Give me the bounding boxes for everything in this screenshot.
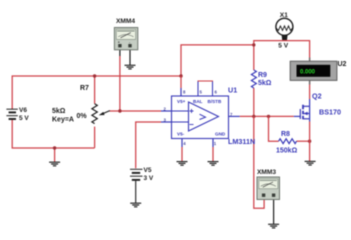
svg-text:5 V: 5 V xyxy=(278,43,288,50)
wire gate lead blue xyxy=(294,115,301,117)
ground U1 pin4 xyxy=(177,162,188,166)
ammeter U2 xyxy=(309,58,311,85)
wire V6 bottom to bottom rail xyxy=(12,120,94,149)
svg-text:R8: R8 xyxy=(281,131,290,138)
svg-text:U1: U1 xyxy=(228,86,237,95)
wire ground stub bottom-left xyxy=(54,148,56,162)
svg-text:BAL: BAL xyxy=(193,99,203,104)
node junction R8/output xyxy=(267,115,270,118)
wire XMM3 plus lead xyxy=(254,116,264,208)
node junction R7 top on rail xyxy=(93,74,96,77)
multimeter XMM3 xyxy=(257,177,280,200)
svg-text:V6: V6 xyxy=(19,107,27,114)
svg-text:Key=A: Key=A xyxy=(52,116,74,123)
svg-text:V5-: V5- xyxy=(177,132,185,137)
ground V5 xyxy=(130,203,141,207)
potentiometer R7 xyxy=(92,104,97,124)
svg-text:3 V: 3 V xyxy=(144,175,154,182)
wire V5 to U1 pin3 xyxy=(136,122,161,168)
lamp X1 xyxy=(276,18,293,35)
node junction R8/Q2 source xyxy=(308,140,311,143)
svg-text:BS170: BS170 xyxy=(319,108,341,117)
svg-text:R7: R7 xyxy=(80,85,89,92)
transistor Q2 BS170 xyxy=(300,105,309,119)
node junction pin8 / rail xyxy=(179,74,182,77)
ground Q2 source xyxy=(305,161,316,165)
svg-text:V5+: V5+ xyxy=(177,99,186,104)
wire R7 bottom lead xyxy=(94,127,96,148)
svg-text:+: + xyxy=(118,40,120,44)
svg-text:5kΩ: 5kΩ xyxy=(258,80,272,87)
wire U1 pins 5-6 strap xyxy=(198,81,213,96)
wire lamp rail xyxy=(254,41,310,70)
wire XMM4 minus lead to ground xyxy=(129,50,131,65)
wire XMM3 minus to ground xyxy=(273,197,275,224)
svg-text:XMM4: XMM4 xyxy=(116,18,135,25)
wire V5 bottom to ground xyxy=(135,181,137,203)
battery V6 xyxy=(6,109,17,119)
wire R7 top lead xyxy=(94,76,96,104)
wire U1 output pin7 xyxy=(229,115,240,117)
svg-text:R9: R9 xyxy=(258,72,267,79)
resistor R9 xyxy=(251,70,256,88)
wire Q2 source to ground xyxy=(309,119,311,122)
ground U1 pin1 xyxy=(208,162,219,166)
node junction XMM4/wiper xyxy=(118,109,121,112)
wire R9 bottom lead to output node xyxy=(253,88,255,116)
wire U1 pin4 to ground xyxy=(181,139,183,148)
svg-text:5 V: 5 V xyxy=(19,115,29,122)
wire U2 bottom to Q2 drain xyxy=(309,80,311,99)
svg-text:B/STB: B/STB xyxy=(208,99,222,104)
svg-text:150kΩ: 150kΩ xyxy=(276,148,298,155)
wire XMM4 plus lead down to wiper node xyxy=(119,50,121,56)
svg-text:Q2: Q2 xyxy=(312,92,322,101)
op-amp U1 LM311N box xyxy=(172,96,229,139)
svg-text:XMM3: XMM3 xyxy=(257,169,276,176)
wire U1 pin1 to ground xyxy=(212,139,214,148)
wire pin8 stub down to U1 xyxy=(180,76,182,88)
wire supply rail V6 top to U1 pin8 junction xyxy=(12,76,181,109)
wire R8 left lead xyxy=(269,116,279,141)
svg-text:0%: 0% xyxy=(77,113,88,120)
node junction R9/output/XMM3 xyxy=(252,115,255,118)
svg-text:X1: X1 xyxy=(280,12,288,19)
wire R8 right lead to source node xyxy=(297,140,310,142)
svg-text:LM311N: LM311N xyxy=(228,137,255,146)
wire rail up from pin8 junction to top wire toward R9/lamp xyxy=(181,45,254,76)
resistor R8 xyxy=(279,139,297,144)
wire wiper to U1 pin2 xyxy=(110,110,162,112)
ground below XMM4 xyxy=(125,65,136,69)
node junction bottom-left ground xyxy=(53,146,56,149)
multimeter XMM4 xyxy=(114,28,137,50)
svg-text:V5: V5 xyxy=(144,167,152,174)
svg-text:5kΩ: 5kΩ xyxy=(52,108,66,115)
svg-text:0.000: 0.000 xyxy=(300,70,316,76)
svg-text:GND: GND xyxy=(215,132,226,137)
ground bottom-left xyxy=(49,162,60,166)
ground XMM3 xyxy=(268,224,279,228)
battery V5 xyxy=(130,169,143,180)
svg-text:U2: U2 xyxy=(338,61,347,68)
node junction supply/lamp/R9 xyxy=(252,43,255,46)
